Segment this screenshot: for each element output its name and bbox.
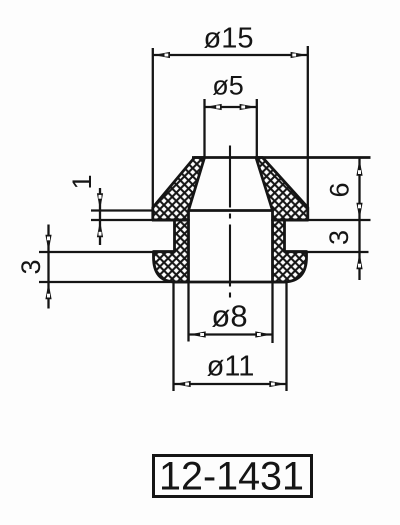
dim 6/3 middle extension line [308,219,371,221]
flange bottom edge [174,281,287,284]
dimension line oslash-5 [205,106,257,108]
arrow dim 1 upper [97,193,103,210]
arrow oslash-11 left [174,381,191,387]
dimension line oslash-8 [189,333,273,335]
grommet cone wedge left (crosshatched) [153,158,205,221]
arrow dim 1 lower [97,221,103,238]
extension line oslash-8 right [271,282,273,343]
dimension line oslash-15 [153,54,308,56]
dimension line oslash-11 [174,383,287,385]
arrow oslash-8 right [255,331,272,337]
svg-text:1: 1 [67,174,97,189]
centerline [229,146,231,299]
skirt bottom edge left [152,219,189,222]
dimension line 3 (left) [47,225,49,309]
arrow dim 3-left upper [45,235,51,252]
grommet cone wedge right (crosshatched) [256,158,308,221]
arrow oslash-8 left [189,331,206,337]
arrow dim 3-left lower [45,283,51,300]
arrow oslash-5 left [205,104,222,110]
arrow oslash-15 left [154,52,171,58]
dimension line 6 and 3 (right) [358,158,360,281]
svg-text:ø15: ø15 [204,23,254,55]
svg-text:12-1431: 12-1431 [159,455,304,499]
extension line oslash-8 left [187,282,189,342]
lower extension line for dim 3 with flange bottom [39,281,174,283]
arrow dim 3-right lower [356,253,362,270]
extension line oslash-15 left [152,48,154,220]
extension line oslash-11 right [285,283,287,391]
flange top edge left with dim 3 extension [39,251,175,253]
extension line oslash-5 right [256,99,258,157]
svg-text:6: 6 [325,182,355,197]
grommet wall and flange left (crosshatched) [154,220,189,282]
svg-text:3: 3 [16,259,46,274]
part number box [154,456,312,497]
dimension line 1 (left) [99,188,101,245]
arrow dim 6 lower / 3 upper [356,203,362,220]
bore shoulder edge [189,209,273,212]
arrow dim 6 upper [356,159,362,176]
extension line oslash-11 left [172,282,174,391]
top face edge and right extension line for dim 6 [192,156,371,159]
extension line oslash-15 right [307,46,309,220]
svg-text:ø8: ø8 [211,299,247,334]
upper extension line for dim 1 [91,209,153,211]
flange top edge right with extension [285,251,369,253]
svg-text:3: 3 [324,230,354,245]
skirt bottom edge right [272,219,309,222]
extension line oslash-5 left [203,99,205,157]
arrow oslash-15 right [291,52,308,58]
grommet wall and flange right (crosshatched) [273,220,307,282]
dim 1 lower extension line [91,219,153,221]
arrow oslash-11 right [269,381,286,387]
svg-text:ø11: ø11 [207,351,255,383]
arrow oslash-5 right [240,104,257,110]
svg-text:ø5: ø5 [212,71,244,101]
